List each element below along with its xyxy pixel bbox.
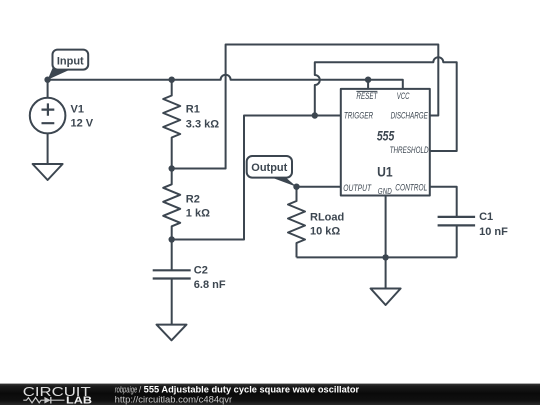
wire: bottom rail RLoad/GND/C1 y=257.4 xyxy=(297,256,457,258)
svg-text:Input: Input xyxy=(57,55,84,67)
junction dot: bottom rail / GND xyxy=(382,254,388,260)
ground symbol under V1 xyxy=(33,164,63,180)
svg-text:V1: V1 xyxy=(71,104,84,116)
input flag tail xyxy=(48,67,71,80)
capacitor C1 xyxy=(438,217,476,258)
svg-text:LAB: LAB xyxy=(66,396,92,405)
junction dot: R2/C2 junction xyxy=(169,236,175,242)
svg-text:10 kΩ: 10 kΩ xyxy=(310,225,340,237)
wire: CONTROL pin to C1 top xyxy=(430,187,457,217)
output flag box xyxy=(247,156,292,178)
svg-text:U1: U1 xyxy=(377,165,393,180)
wire: TRIGGER node up to THRESHOLD loop, vertical hop at y=79.7, hop over x=438.3 xyxy=(315,57,457,151)
wire: OUTPUT pin stub to output node xyxy=(297,186,341,188)
svg-text:555 Adjustable duty cycle squa: 555 Adjustable duty cycle square wave os… xyxy=(144,385,360,395)
svg-text:THRESHOLD: THRESHOLD xyxy=(390,145,429,156)
output flag tail xyxy=(267,176,297,187)
wire: RESET pin stub xyxy=(367,80,369,89)
svg-text:Output: Output xyxy=(251,162,287,174)
resistor R2 xyxy=(163,169,180,240)
junction dot: TRIGGER node xyxy=(312,112,318,118)
svg-text:555: 555 xyxy=(377,128,395,143)
junction dot: Input node xyxy=(44,77,50,83)
svg-text:C2: C2 xyxy=(194,265,208,277)
voltage source V1 xyxy=(30,80,66,164)
input flag box xyxy=(53,50,89,70)
wire: R2 bottom to TRIGGER pin (y=239.5 right, up x=244, right y=115.5) xyxy=(172,116,341,240)
svg-text:R2: R2 xyxy=(186,194,200,206)
footer title line xyxy=(115,385,360,395)
op-amp/IC body U1 (555 timer) xyxy=(341,89,430,196)
svg-text:C1: C1 xyxy=(479,211,493,223)
svg-text:RESET: RESET xyxy=(356,91,378,102)
svg-text:VCC: VCC xyxy=(397,91,410,102)
svg-text:12 V: 12 V xyxy=(71,118,94,130)
svg-text:CONTROL: CONTROL xyxy=(395,182,427,193)
svg-text:R1: R1 xyxy=(186,104,200,116)
pin label RESET with overline xyxy=(356,91,378,102)
resistor R1 xyxy=(163,80,180,169)
junction dot: rail / R1 top xyxy=(169,77,175,83)
ground symbol under 555 GND xyxy=(371,289,401,306)
ground symbol under C2 xyxy=(157,325,187,341)
svg-text:DISCHARGE: DISCHARGE xyxy=(391,111,429,122)
svg-text:TRIGGER: TRIGGER xyxy=(344,111,373,122)
footer logo CIRCUIT LAB xyxy=(23,384,92,405)
svg-text:1 kΩ: 1 kΩ xyxy=(186,207,210,219)
junction dot: OUTPUT node xyxy=(293,184,299,190)
svg-text:GND: GND xyxy=(378,187,392,196)
svg-text:robpaige: robpaige xyxy=(115,385,138,395)
svg-text:RLoad: RLoad xyxy=(310,212,344,224)
svg-text:OUTPUT: OUTPUT xyxy=(343,183,372,194)
svg-text:6.8 nF: 6.8 nF xyxy=(194,279,226,291)
wire: 555 GND pin down to ground xyxy=(385,196,387,289)
svg-text:3.3 kΩ: 3.3 kΩ xyxy=(186,118,219,130)
wire: R1/R2 junction to DISCHARGE loop (up x=225.6, across y=44.5, down x=438.3) xyxy=(172,45,439,169)
svg-text:http://circuitlab.com/c484qvr: http://circuitlab.com/c484qvr xyxy=(115,395,232,405)
junction dot: R1/R2 junction xyxy=(169,165,175,171)
resistor RLoad xyxy=(288,187,305,258)
wire: VCC rail y=79.7 from Input node to 555 VCC pin corner, hop over x=225.6 xyxy=(48,75,403,89)
junction dot: rail / RESET stub xyxy=(365,77,371,83)
capacitor C2 xyxy=(153,240,191,325)
svg-text:10 nF: 10 nF xyxy=(479,226,508,238)
